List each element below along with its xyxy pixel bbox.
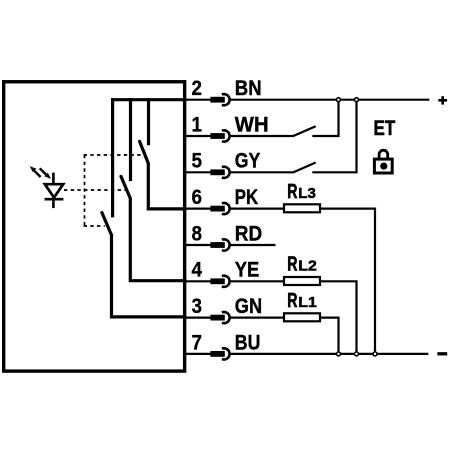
pin 6 plug contact bbox=[210, 206, 224, 212]
pin 1 wire stub bbox=[186, 135, 212, 137]
wire: RL3 to minus rail bbox=[320, 209, 376, 354]
svg-text:R: R bbox=[287, 181, 298, 203]
pin 3 wire stub bbox=[186, 317, 212, 319]
svg-text:L1: L1 bbox=[298, 295, 317, 311]
wire: GY switch to BN rail bbox=[312, 100, 356, 173]
sensor body box bbox=[4, 82, 185, 371]
svg-text:8: 8 bbox=[191, 222, 202, 245]
svg-text:4: 4 bbox=[191, 259, 202, 282]
wire: RL2 to minus rail bbox=[320, 281, 357, 354]
svg-text:2: 2 bbox=[191, 77, 202, 100]
resistor RL2 bbox=[284, 277, 320, 285]
wire: YE to resistor RL2 bbox=[230, 280, 285, 282]
switch S3 bbox=[102, 213, 112, 236]
pin 6 socket arc bbox=[222, 203, 230, 214]
switch S1 bbox=[140, 141, 149, 163]
wire: S3 to pin 3 bbox=[112, 235, 187, 317]
pin 7 wire stub bbox=[186, 353, 212, 355]
junction on minus rail (RL2) bbox=[355, 352, 359, 356]
junction on BN rail (GY) bbox=[355, 98, 359, 102]
junction on minus rail (RL1) bbox=[337, 352, 341, 356]
external switch on GY bbox=[293, 163, 316, 173]
wire: BN bus inside box bbox=[111, 98, 186, 101]
light arrow in bbox=[40, 168, 51, 179]
wire: WH to external switch bbox=[230, 135, 294, 137]
pin 3 plug contact bbox=[210, 315, 224, 321]
pin 1 socket arc bbox=[222, 130, 230, 141]
pin 4 wire stub bbox=[186, 280, 212, 282]
svg-text:L3: L3 bbox=[298, 186, 316, 202]
wire: BN to plus terminal bbox=[230, 99, 429, 101]
pin 3 socket arc bbox=[222, 312, 230, 323]
wire: WH switch to BN rail bbox=[312, 100, 338, 136]
svg-text:RD: RD bbox=[235, 222, 262, 245]
wire: RL1 to minus rail bbox=[320, 318, 339, 354]
pin 7 plug contact bbox=[210, 351, 224, 357]
svg-text:WH: WH bbox=[235, 113, 269, 136]
wire: GN to resistor RL1 bbox=[230, 317, 285, 319]
svg-text:ET: ET bbox=[374, 117, 396, 140]
resistor RL1 bbox=[284, 313, 320, 321]
svg-text:PK: PK bbox=[235, 186, 258, 209]
svg-text:BN: BN bbox=[235, 77, 262, 100]
minus terminal bbox=[437, 352, 447, 355]
pin 5 wire stub bbox=[186, 171, 212, 173]
linkage dashed to switch S3 bbox=[84, 225, 105, 227]
svg-text:3: 3 bbox=[191, 295, 202, 318]
wire: RD stub bbox=[230, 244, 276, 246]
wire: branch to switch S3 bbox=[111, 98, 114, 217]
external switch on WH bbox=[293, 126, 316, 136]
svg-text:YE: YE bbox=[235, 259, 259, 282]
pin 8 wire stub bbox=[186, 244, 212, 246]
wire: BU to minus terminal bbox=[230, 353, 429, 355]
junction on minus rail (RL3) bbox=[373, 352, 377, 356]
wire: S2 to pin 4 bbox=[130, 198, 186, 281]
pin 1 plug contact bbox=[210, 133, 224, 139]
wire: S1 to pin 6 bbox=[148, 163, 186, 209]
svg-text:6: 6 bbox=[191, 186, 202, 209]
linkage dashed to switch S1 bbox=[84, 154, 145, 156]
pin 6 wire stub bbox=[186, 208, 212, 210]
wire: GY to external switch bbox=[230, 171, 294, 173]
switch S2 bbox=[121, 176, 130, 198]
svg-text:L2: L2 bbox=[298, 259, 317, 275]
photodiode D1 bbox=[45, 173, 64, 209]
pin 2 wire stub bbox=[186, 99, 212, 101]
wire: PK to resistor RL3 bbox=[230, 208, 285, 210]
svg-text:BU: BU bbox=[235, 331, 261, 354]
linkage dashed from photodiode to switch S2 bbox=[64, 189, 127, 191]
wire: branch to switch S2 bbox=[129, 98, 132, 181]
svg-text:R: R bbox=[287, 290, 298, 312]
svg-text:GN: GN bbox=[235, 295, 262, 318]
pin 4 plug contact bbox=[210, 278, 224, 284]
light arrow out bbox=[30, 166, 41, 177]
pin 5 plug contact bbox=[210, 169, 224, 175]
lock icon bbox=[374, 150, 392, 173]
pin 8 socket arc bbox=[222, 239, 230, 250]
pin 7 socket arc bbox=[222, 348, 230, 359]
pin 4 socket arc bbox=[222, 276, 230, 287]
svg-text:7: 7 bbox=[191, 331, 202, 354]
pin 8 plug contact bbox=[210, 242, 224, 248]
plus terminal bbox=[438, 96, 447, 104]
wire: branch to switch S1 bbox=[147, 98, 150, 145]
pin 2 socket arc bbox=[222, 94, 230, 105]
svg-text:GY: GY bbox=[235, 150, 260, 173]
linkage dashed vertical bbox=[84, 155, 86, 226]
svg-text:R: R bbox=[287, 254, 298, 276]
svg-text:1: 1 bbox=[191, 113, 202, 136]
svg-text:5: 5 bbox=[191, 150, 202, 173]
resistor RL3 bbox=[284, 204, 320, 212]
pin 5 socket arc bbox=[222, 167, 230, 178]
junction on BN rail (WH) bbox=[337, 98, 341, 102]
pin 2 plug contact bbox=[210, 97, 224, 103]
